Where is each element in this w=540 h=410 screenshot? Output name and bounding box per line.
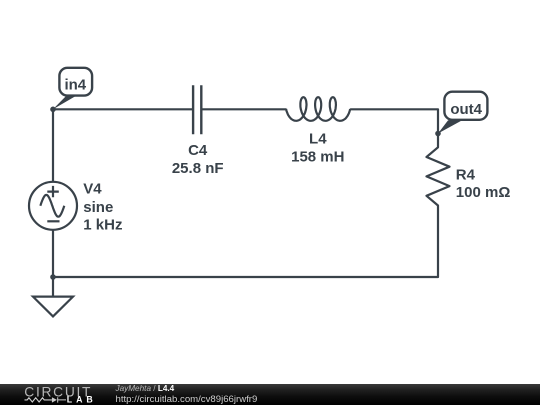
svg-text:sine: sine	[83, 199, 113, 216]
svg-text:L4: L4	[309, 131, 327, 148]
svg-text:C4: C4	[188, 142, 208, 159]
svg-text:25.8 nF: 25.8 nF	[172, 160, 224, 177]
svg-text:R4: R4	[456, 166, 476, 183]
svg-text:in4: in4	[64, 77, 86, 94]
svg-text:JayMehta / L4.4: JayMehta / L4.4	[115, 384, 175, 393]
svg-text:1 kHz: 1 kHz	[83, 217, 122, 234]
svg-text:100 mΩ: 100 mΩ	[456, 184, 511, 201]
svg-text:V4: V4	[83, 181, 102, 198]
svg-text:LAB: LAB	[67, 394, 97, 404]
svg-text:158 mH: 158 mH	[291, 148, 344, 165]
svg-text:http://circuitlab.com/cv89j66j: http://circuitlab.com/cv89j66jrwfr9	[116, 394, 258, 405]
svg-text:out4: out4	[450, 101, 482, 118]
